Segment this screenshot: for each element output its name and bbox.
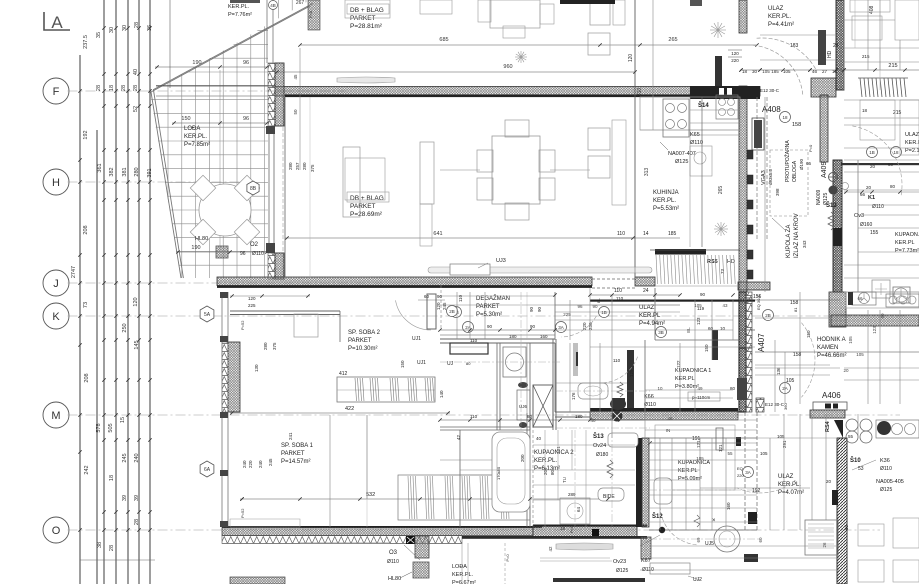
svg-text:P=7.73m²: P=7.73m² bbox=[895, 248, 919, 254]
svg-text:3B: 3B bbox=[658, 330, 664, 335]
svg-text:Ø110: Ø110 bbox=[387, 559, 399, 565]
svg-text:310: 310 bbox=[637, 88, 643, 97]
svg-text:105: 105 bbox=[760, 451, 768, 456]
svg-text:110: 110 bbox=[470, 414, 478, 419]
svg-text:241: 241 bbox=[288, 432, 293, 440]
svg-text:NA007-407: NA007-407 bbox=[668, 151, 696, 157]
svg-text:28: 28 bbox=[96, 85, 102, 91]
svg-text:55: 55 bbox=[727, 451, 733, 456]
svg-text:46: 46 bbox=[667, 416, 673, 421]
svg-text:641: 641 bbox=[433, 231, 442, 237]
svg-text:18: 18 bbox=[782, 115, 788, 120]
svg-text:145: 145 bbox=[134, 340, 140, 349]
svg-text:KUPAONICA 2: KUPAONICA 2 bbox=[534, 450, 574, 456]
svg-text:120: 120 bbox=[133, 297, 139, 306]
svg-text:P=0: P=0 bbox=[808, 144, 813, 152]
svg-text:110: 110 bbox=[616, 296, 624, 301]
svg-text:150: 150 bbox=[181, 116, 190, 122]
svg-text:220: 220 bbox=[737, 473, 744, 478]
svg-text:360: 360 bbox=[783, 403, 788, 410]
svg-text:10: 10 bbox=[657, 386, 663, 391]
svg-text:J: J bbox=[53, 278, 59, 290]
svg-text:120: 120 bbox=[628, 54, 634, 63]
svg-text:Ø125: Ø125 bbox=[880, 487, 892, 493]
svg-text:60: 60 bbox=[424, 294, 430, 299]
svg-text:150: 150 bbox=[400, 360, 405, 368]
svg-text:ULAZ: ULAZ bbox=[905, 132, 919, 138]
svg-text:90: 90 bbox=[529, 306, 534, 312]
svg-text:UJ6: UJ6 bbox=[519, 404, 527, 409]
svg-text:73: 73 bbox=[720, 268, 725, 274]
svg-text:81: 81 bbox=[793, 307, 798, 312]
svg-text:40: 40 bbox=[133, 69, 139, 75]
svg-text:P=5.53m²: P=5.53m² bbox=[653, 206, 679, 212]
svg-text:280: 280 bbox=[263, 342, 268, 350]
svg-text:240: 240 bbox=[134, 453, 140, 462]
svg-text:80: 80 bbox=[880, 313, 885, 319]
svg-text:398: 398 bbox=[775, 188, 780, 196]
svg-text:215: 215 bbox=[888, 63, 897, 69]
svg-text:382: 382 bbox=[109, 167, 115, 176]
svg-text:185: 185 bbox=[668, 231, 677, 237]
svg-text:26: 26 bbox=[822, 542, 827, 548]
svg-text:422: 422 bbox=[345, 406, 354, 412]
svg-text:28: 28 bbox=[134, 519, 140, 525]
svg-text:280: 280 bbox=[302, 162, 307, 170]
svg-text:36: 36 bbox=[147, 25, 153, 31]
svg-text:KUPAON.: KUPAON. bbox=[895, 232, 919, 238]
svg-text:66: 66 bbox=[806, 161, 812, 166]
svg-text:SP. SOBA 2: SP. SOBA 2 bbox=[348, 330, 381, 336]
svg-text:P=2.1: P=2.1 bbox=[905, 148, 919, 154]
svg-text:267: 267 bbox=[296, 0, 305, 6]
svg-text:40: 40 bbox=[536, 436, 542, 441]
svg-text:OBLOGA: OBLOGA bbox=[792, 160, 798, 182]
svg-text:P=3.80m²: P=3.80m² bbox=[675, 384, 699, 390]
svg-text:18: 18 bbox=[893, 150, 899, 155]
svg-text:110: 110 bbox=[614, 288, 622, 294]
svg-text:P=5.09m²: P=5.09m² bbox=[678, 476, 702, 482]
svg-text:28: 28 bbox=[134, 22, 140, 28]
svg-text:391: 391 bbox=[147, 168, 153, 177]
svg-text:120: 120 bbox=[248, 296, 256, 301]
svg-text:DB + BLAG: DB + BLAG bbox=[350, 7, 384, 14]
svg-text:80: 80 bbox=[890, 184, 896, 189]
svg-text:1B: 1B bbox=[869, 150, 875, 155]
svg-text:3A: 3A bbox=[745, 470, 751, 475]
svg-text:110: 110 bbox=[613, 358, 621, 363]
svg-text:280: 280 bbox=[288, 162, 293, 170]
svg-text:60: 60 bbox=[758, 537, 763, 543]
svg-text:ULAZ: ULAZ bbox=[639, 305, 655, 311]
svg-text:110: 110 bbox=[470, 338, 478, 343]
svg-text:LOĐA: LOĐA bbox=[452, 564, 467, 570]
svg-text:P=0: P=0 bbox=[308, 10, 313, 18]
svg-text:Š10: Š10 bbox=[850, 456, 861, 464]
svg-text:215: 215 bbox=[862, 54, 870, 59]
svg-text:375: 375 bbox=[310, 164, 315, 172]
svg-text:225: 225 bbox=[563, 312, 571, 317]
svg-text:KAMEN: KAMEN bbox=[817, 345, 838, 351]
svg-text:KUHINJA: KUHINJA bbox=[653, 190, 679, 196]
svg-text:6A: 6A bbox=[204, 467, 211, 473]
svg-text:PARKET: PARKET bbox=[350, 203, 376, 210]
svg-text:KER.PL.: KER.PL. bbox=[534, 458, 557, 464]
svg-text:BIDE: BIDE bbox=[603, 494, 615, 500]
svg-text:39: 39 bbox=[134, 495, 140, 501]
svg-text:90: 90 bbox=[530, 324, 536, 329]
svg-text:PARKET: PARKET bbox=[348, 338, 372, 344]
svg-text:156: 156 bbox=[753, 294, 762, 300]
svg-text:O2: O2 bbox=[250, 242, 259, 248]
svg-text:P=52: P=52 bbox=[240, 508, 245, 518]
svg-text:42: 42 bbox=[548, 546, 553, 552]
svg-text:KER.PL.: KER.PL. bbox=[184, 134, 207, 140]
svg-text:RS5: RS5 bbox=[707, 259, 718, 265]
svg-text:220: 220 bbox=[582, 322, 587, 330]
svg-text:80: 80 bbox=[466, 361, 471, 366]
svg-text:KER.PL: KER.PL bbox=[678, 468, 698, 474]
svg-text:DEGAŽMAN: DEGAŽMAN bbox=[476, 294, 510, 302]
svg-text:28: 28 bbox=[109, 545, 115, 551]
svg-text:P≈0: P≈0 bbox=[569, 525, 574, 533]
svg-text:ULAZ: ULAZ bbox=[768, 6, 784, 12]
svg-text:KUPOLA ZA: KUPOLA ZA bbox=[786, 225, 792, 258]
svg-text:LOĐA: LOĐA bbox=[184, 126, 200, 132]
svg-text:240: 240 bbox=[242, 460, 247, 468]
svg-text:53: 53 bbox=[858, 466, 864, 472]
svg-text:P=4.94m²: P=4.94m² bbox=[639, 321, 665, 327]
svg-text:P=5.30m²: P=5.30m² bbox=[476, 312, 502, 318]
svg-text:Ø110: Ø110 bbox=[644, 402, 656, 408]
svg-text:Ø110: Ø110 bbox=[252, 251, 264, 257]
svg-text:A: A bbox=[51, 13, 63, 32]
svg-text:208: 208 bbox=[83, 225, 89, 234]
svg-text:KER.PL.: KER.PL. bbox=[653, 198, 676, 204]
svg-text:K36: K36 bbox=[880, 458, 890, 464]
svg-text:Š13: Š13 bbox=[826, 201, 837, 209]
svg-text:180: 180 bbox=[575, 414, 583, 419]
svg-text:42: 42 bbox=[456, 434, 461, 440]
svg-text:190: 190 bbox=[192, 60, 201, 66]
svg-text:Ø160: Ø160 bbox=[860, 222, 872, 228]
svg-text:Ø125: Ø125 bbox=[616, 568, 628, 574]
svg-text:KER.PL.: KER.PL. bbox=[778, 482, 801, 488]
svg-text:64: 64 bbox=[576, 506, 581, 512]
svg-text:P=14.57m²: P=14.57m² bbox=[281, 459, 311, 465]
svg-text:KER.P: KER.P bbox=[905, 140, 919, 146]
svg-text:Ov24: Ov24 bbox=[593, 443, 606, 449]
svg-text:NA005-405: NA005-405 bbox=[876, 479, 904, 485]
svg-text:18: 18 bbox=[109, 475, 115, 481]
svg-text:KER.PL.: KER.PL. bbox=[768, 14, 791, 20]
svg-text:KER.PL: KER.PL bbox=[675, 376, 695, 382]
svg-text:DB + BLAG: DB + BLAG bbox=[350, 195, 384, 202]
svg-text:55: 55 bbox=[848, 434, 854, 439]
svg-text:242: 242 bbox=[84, 465, 90, 474]
svg-text:208: 208 bbox=[84, 373, 90, 382]
svg-text:250: 250 bbox=[122, 323, 128, 332]
svg-text:90: 90 bbox=[487, 324, 493, 329]
svg-text:73: 73 bbox=[83, 302, 89, 308]
svg-text:200: 200 bbox=[520, 454, 525, 462]
svg-text:K: K bbox=[52, 311, 60, 323]
svg-text:3A: 3A bbox=[558, 325, 564, 330]
svg-text:257: 257 bbox=[295, 162, 300, 170]
svg-text:SP. SOBA 1: SP. SOBA 1 bbox=[281, 443, 314, 449]
svg-text:IZLAZ NA KROV: IZLAZ NA KROV bbox=[794, 213, 800, 258]
svg-text:VGA3: VGA3 bbox=[761, 170, 767, 185]
svg-text:HL80: HL80 bbox=[388, 576, 401, 582]
svg-text:220: 220 bbox=[248, 460, 253, 468]
svg-text:KER.PL: KER.PL bbox=[895, 240, 915, 246]
svg-text:90: 90 bbox=[437, 294, 443, 299]
svg-text:TU: TU bbox=[562, 477, 567, 483]
svg-text:P=4.41m²: P=4.41m² bbox=[768, 22, 794, 28]
svg-text:361: 361 bbox=[97, 163, 103, 172]
svg-text:P=6.67m²: P=6.67m² bbox=[452, 580, 476, 584]
svg-text:P=46.66m²: P=46.66m² bbox=[817, 353, 847, 359]
svg-text:Ø110: Ø110 bbox=[690, 140, 703, 146]
svg-text:96: 96 bbox=[240, 251, 246, 257]
svg-text:EQ: EQ bbox=[737, 466, 743, 471]
svg-text:5A: 5A bbox=[204, 312, 211, 318]
svg-text:HD: HD bbox=[827, 50, 833, 58]
svg-text:18: 18 bbox=[862, 108, 868, 113]
svg-text:EL: EL bbox=[686, 327, 691, 333]
svg-text:Š14: Š14 bbox=[698, 101, 709, 109]
svg-text:Ov3: Ov3 bbox=[854, 213, 864, 219]
svg-text:K1: K1 bbox=[868, 195, 875, 201]
svg-text:49: 49 bbox=[697, 386, 703, 391]
svg-text:P=0: P=0 bbox=[505, 554, 510, 562]
svg-text:ULAZ: ULAZ bbox=[778, 474, 794, 480]
svg-text:20: 20 bbox=[870, 164, 876, 169]
svg-text:110: 110 bbox=[458, 294, 463, 302]
svg-text:69: 69 bbox=[696, 537, 701, 543]
svg-text:578: 578 bbox=[96, 423, 102, 432]
svg-text:265: 265 bbox=[668, 37, 677, 43]
svg-text:80: 80 bbox=[888, 162, 894, 167]
svg-text:375: 375 bbox=[272, 342, 277, 350]
svg-text:38: 38 bbox=[745, 296, 751, 301]
svg-text:M: M bbox=[51, 410, 60, 422]
svg-text:408: 408 bbox=[869, 5, 875, 14]
svg-text:209: 209 bbox=[543, 467, 548, 475]
svg-text:15: 15 bbox=[120, 417, 126, 423]
svg-text:105: 105 bbox=[696, 456, 704, 461]
svg-text:18: 18 bbox=[109, 85, 115, 91]
svg-text:105: 105 bbox=[694, 303, 702, 308]
svg-text:Ø180: Ø180 bbox=[596, 452, 608, 458]
svg-text:Ø190: Ø190 bbox=[799, 158, 804, 170]
svg-text:225: 225 bbox=[248, 303, 256, 308]
svg-text:158: 158 bbox=[792, 122, 801, 128]
svg-text:343: 343 bbox=[802, 240, 807, 248]
svg-text:K66: K66 bbox=[644, 394, 654, 400]
svg-text:130: 130 bbox=[254, 364, 259, 372]
svg-text:F: F bbox=[53, 86, 60, 98]
svg-text:EL: EL bbox=[596, 297, 601, 303]
svg-text:90: 90 bbox=[537, 306, 542, 312]
svg-text:O: O bbox=[52, 525, 61, 537]
svg-text:291: 291 bbox=[782, 440, 787, 448]
svg-text:30: 30 bbox=[109, 27, 115, 33]
svg-text:280: 280 bbox=[134, 167, 140, 176]
svg-text:UJ2: UJ2 bbox=[693, 577, 702, 583]
svg-text:105: 105 bbox=[856, 352, 864, 357]
svg-text:38: 38 bbox=[97, 542, 103, 548]
svg-text:39: 39 bbox=[122, 495, 128, 501]
svg-text:24: 24 bbox=[833, 43, 839, 49]
svg-text:245: 245 bbox=[122, 453, 128, 462]
svg-text:UJ3: UJ3 bbox=[496, 258, 506, 264]
svg-text:52: 52 bbox=[133, 106, 139, 112]
svg-text:Ø110: Ø110 bbox=[880, 466, 892, 472]
svg-text:A409: A409 bbox=[821, 162, 828, 178]
svg-text:P=7.85m²: P=7.85m² bbox=[184, 142, 210, 148]
svg-text:UJ1: UJ1 bbox=[417, 360, 426, 366]
svg-text:105: 105 bbox=[848, 336, 853, 344]
svg-text:20: 20 bbox=[843, 368, 849, 373]
svg-text:8B: 8B bbox=[250, 186, 257, 192]
svg-text:123: 123 bbox=[872, 326, 877, 334]
svg-text:220: 220 bbox=[731, 58, 739, 63]
svg-text:NA009: NA009 bbox=[816, 189, 822, 205]
svg-text:313: 313 bbox=[644, 168, 650, 177]
svg-text:120: 120 bbox=[731, 51, 739, 56]
svg-text:45: 45 bbox=[293, 74, 298, 80]
svg-text:176: 176 bbox=[571, 392, 576, 400]
svg-text:123: 123 bbox=[696, 317, 701, 325]
svg-text:43: 43 bbox=[722, 303, 728, 308]
svg-text:237.5: 237.5 bbox=[83, 35, 89, 49]
svg-text:150: 150 bbox=[704, 344, 709, 352]
svg-text:66: 66 bbox=[857, 296, 863, 301]
svg-text:P=7.76m²: P=7.76m² bbox=[228, 12, 252, 18]
svg-text:532: 532 bbox=[366, 492, 375, 498]
svg-text:50: 50 bbox=[293, 109, 298, 115]
svg-text:183: 183 bbox=[790, 43, 799, 49]
svg-text:P=52: P=52 bbox=[240, 320, 245, 330]
svg-text:A407: A407 bbox=[757, 333, 766, 352]
svg-text:Š13: Š13 bbox=[593, 432, 604, 440]
svg-text:18: 18 bbox=[560, 526, 566, 531]
svg-text:158: 158 bbox=[790, 300, 799, 306]
svg-text:2747: 2747 bbox=[71, 266, 77, 278]
svg-text:PARKET: PARKET bbox=[281, 451, 305, 457]
svg-text:180: 180 bbox=[509, 334, 517, 339]
svg-text:28: 28 bbox=[133, 85, 139, 91]
svg-text:40: 40 bbox=[590, 418, 596, 423]
svg-text:60: 60 bbox=[844, 524, 849, 530]
svg-text:2B: 2B bbox=[765, 313, 771, 318]
svg-text:121: 121 bbox=[556, 446, 561, 454]
svg-text:IN: IN bbox=[666, 428, 671, 433]
svg-text:KUPAONICA: KUPAONICA bbox=[678, 460, 710, 466]
svg-text:20: 20 bbox=[866, 185, 872, 190]
svg-text:Š12: Š12 bbox=[652, 512, 663, 520]
svg-text:505: 505 bbox=[108, 423, 114, 432]
svg-text:4B: 4B bbox=[270, 3, 276, 8]
svg-text:d93x5.8: d93x5.8 bbox=[768, 168, 773, 185]
svg-text:30: 30 bbox=[122, 25, 128, 31]
svg-text:120: 120 bbox=[436, 302, 441, 310]
svg-text:160: 160 bbox=[540, 334, 548, 339]
svg-text:121: 121 bbox=[718, 444, 723, 452]
svg-text:80: 80 bbox=[550, 469, 555, 475]
svg-text:P=28.81m²: P=28.81m² bbox=[350, 23, 383, 30]
svg-text:HODNIK A: HODNIK A bbox=[817, 337, 846, 343]
svg-text:160: 160 bbox=[726, 502, 731, 510]
svg-text:P=10.30m²: P=10.30m² bbox=[348, 346, 378, 352]
svg-text:140: 140 bbox=[439, 390, 444, 398]
svg-text:PROTUPOŽARNA: PROTUPOŽARNA bbox=[783, 140, 791, 182]
svg-text:E12 30-C: E12 30-C bbox=[760, 88, 780, 93]
svg-text:KER.PL.: KER.PL. bbox=[228, 4, 250, 10]
svg-text:O3: O3 bbox=[389, 550, 398, 556]
svg-text:96: 96 bbox=[243, 116, 249, 122]
svg-text:UJ1: UJ1 bbox=[412, 336, 421, 342]
svg-text:24: 24 bbox=[643, 288, 649, 294]
svg-text:28: 28 bbox=[121, 85, 127, 91]
svg-text:245: 245 bbox=[442, 302, 447, 310]
svg-text:170x80: 170x80 bbox=[496, 466, 501, 480]
svg-text:265: 265 bbox=[718, 186, 724, 195]
svg-text:155: 155 bbox=[870, 230, 879, 236]
svg-text:H: H bbox=[52, 177, 60, 189]
svg-text:685: 685 bbox=[439, 37, 448, 43]
svg-text:240: 240 bbox=[258, 460, 263, 468]
svg-text:412: 412 bbox=[339, 371, 348, 377]
svg-text:35: 35 bbox=[96, 32, 102, 38]
svg-text:PARKET: PARKET bbox=[350, 15, 376, 22]
svg-text:KER.PL: KER.PL bbox=[639, 313, 661, 319]
svg-text:245: 245 bbox=[268, 458, 273, 466]
svg-text:190: 190 bbox=[191, 245, 200, 251]
svg-text:Ov23: Ov23 bbox=[613, 559, 626, 565]
svg-text:80: 80 bbox=[527, 414, 533, 419]
svg-text:20: 20 bbox=[826, 479, 832, 484]
svg-text:2B: 2B bbox=[449, 309, 455, 314]
svg-text:90: 90 bbox=[700, 292, 706, 297]
svg-text:110: 110 bbox=[617, 231, 625, 237]
svg-text:×: × bbox=[712, 518, 716, 524]
svg-text:90: 90 bbox=[592, 304, 598, 309]
svg-text:Ø125: Ø125 bbox=[675, 159, 688, 165]
svg-text:960: 960 bbox=[503, 64, 512, 70]
svg-text:96: 96 bbox=[577, 304, 583, 309]
svg-text:14: 14 bbox=[643, 231, 649, 237]
svg-text:96: 96 bbox=[243, 60, 249, 66]
svg-text:KER.PL.: KER.PL. bbox=[452, 572, 474, 578]
svg-text:192: 192 bbox=[83, 130, 89, 139]
svg-text:A406: A406 bbox=[822, 391, 841, 400]
svg-text:HL80: HL80 bbox=[195, 236, 208, 242]
svg-text:381: 381 bbox=[122, 167, 128, 176]
